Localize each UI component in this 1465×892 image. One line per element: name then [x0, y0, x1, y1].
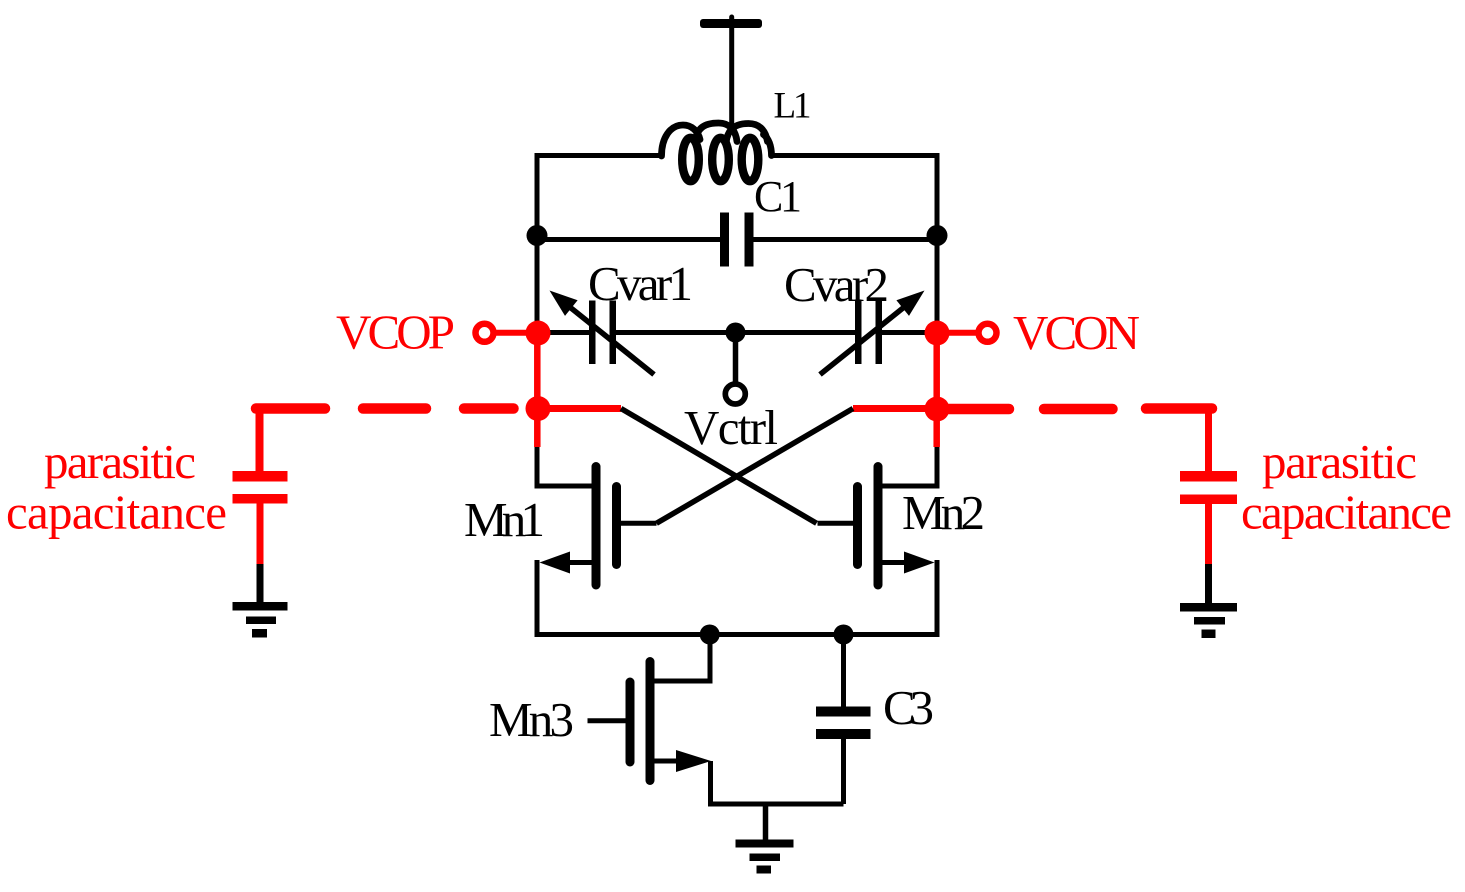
terminal VCOP [476, 324, 494, 342]
wire Mn3 source down [711, 761, 844, 804]
wire parasitic left lower black [257, 564, 264, 604]
wire red drop left [256, 406, 264, 472]
wire red link right gate diagonal to node [853, 405, 937, 412]
svg-text:C3: C3 [883, 680, 934, 735]
wire parasitic right lower red [1205, 504, 1212, 564]
wire Mn2 source down [935, 560, 940, 635]
wire red link left node to gate diagonal [527, 405, 621, 412]
capacitor parasitic left plates [233, 471, 288, 504]
wire tail rail [535, 632, 940, 637]
wire right rail to Mn2 drain [880, 447, 937, 486]
wire left rail red segment [534, 333, 541, 447]
wire red dash left 3 [464, 403, 514, 414]
wire tail ground stub [763, 804, 769, 841]
wire supply stem [729, 17, 734, 129]
wire left rail upper [535, 153, 540, 333]
node dot tail right [834, 625, 854, 645]
ground tail [736, 840, 794, 874]
wire red dash corner left [256, 403, 325, 414]
wire top rail right [770, 153, 937, 158]
capacitor C3 [816, 707, 871, 740]
varactor Cvar1 plates [589, 301, 616, 365]
VDD supply bar [700, 19, 762, 28]
wire C3 lower [841, 739, 846, 804]
node dot right C1 [927, 225, 948, 246]
svg-text:Vctrl: Vctrl [684, 400, 778, 455]
node dot VCOP rail [526, 321, 551, 346]
wire Mn1 source down [535, 560, 540, 635]
wire varactor row left [538, 330, 589, 335]
wire C1 row right [754, 237, 938, 242]
svg-text:Mn3: Mn3 [489, 692, 574, 747]
svg-text:C1: C1 [754, 172, 802, 221]
svg-text:VCON: VCON [1013, 305, 1140, 360]
wire VCON lead [937, 330, 985, 336]
node dot Vctrl tap [726, 323, 746, 343]
varactor Cvar2 arrow [820, 308, 903, 375]
wire C3 upper [841, 635, 846, 708]
ground left [233, 602, 288, 638]
varactor Cvar1 arrow [571, 308, 654, 375]
inductor L1 [662, 123, 772, 156]
node dot left parasitic junction [526, 396, 551, 421]
wire varactor row center-right [736, 330, 856, 335]
wire Vctrl stem [733, 333, 739, 385]
svg-text:capacitance: capacitance [6, 485, 227, 540]
wire varactor row center-left [616, 330, 736, 335]
node dot right parasitic junction [925, 397, 950, 422]
svg-text:Mn1: Mn1 [464, 492, 545, 547]
wire VCOP lead [490, 330, 538, 336]
wire red dash left 2 [363, 403, 426, 414]
node dot left C1 [527, 225, 548, 246]
capacitor parasitic right plates [1180, 471, 1237, 504]
ground right [1180, 603, 1237, 638]
terminal VCON [979, 324, 997, 342]
wire red drop right [1205, 406, 1212, 472]
transistor Mn3 [588, 662, 712, 781]
wire parasitic right lower black [1205, 564, 1212, 605]
node dot tail left [700, 625, 720, 645]
svg-text:VCOP: VCOP [336, 305, 455, 360]
terminal Vctrl [725, 384, 745, 404]
wire Mn3 drain [652, 635, 710, 682]
transistor Mn2 [818, 467, 935, 586]
transistor Mn1 [540, 467, 657, 586]
wire red dash right 2 [1044, 404, 1113, 415]
wire cross-couple diagonal right-to-Mn1gate [657, 409, 854, 524]
wire red dash corner right [1146, 403, 1212, 414]
wire right rail upper [935, 153, 940, 333]
capacitor C1 [720, 213, 754, 267]
wire left rail to Mn1 drain [537, 447, 594, 486]
varactor Cvar2 plates [855, 301, 882, 365]
wire C1 row left [537, 237, 720, 242]
svg-text:capacitance: capacitance [1241, 485, 1452, 540]
wire varactor row right [882, 330, 937, 335]
wire right rail red segment [933, 333, 940, 447]
wire cross-couple diagonal left-to-Mn2gate [621, 409, 817, 524]
wire top rail left [537, 153, 663, 158]
wire parasitic left lower red [257, 504, 264, 565]
svg-text:Mn2: Mn2 [902, 485, 985, 540]
svg-text:L1: L1 [774, 86, 812, 127]
node dot VCON rail [925, 321, 950, 346]
svg-text:parasitic: parasitic [1262, 434, 1417, 489]
svg-text:parasitic: parasitic [44, 434, 196, 489]
svg-text:Cvar2: Cvar2 [784, 257, 889, 312]
svg-text:Cvar1: Cvar1 [588, 256, 693, 311]
wire red dash right 1 [942, 404, 1009, 415]
